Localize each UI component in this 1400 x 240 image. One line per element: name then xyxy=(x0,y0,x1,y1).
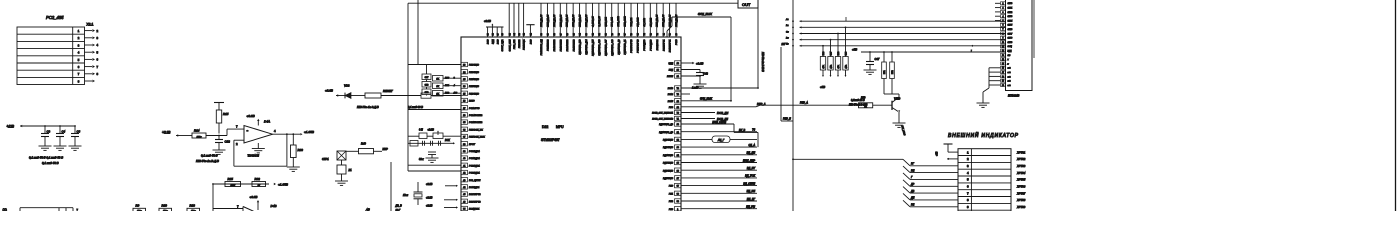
svg-text:BCK: BCK xyxy=(445,140,450,142)
svg-text:ВЫ2_АБ12: ВЫ2_АБ12 xyxy=(624,15,627,26)
svg-text:0,1 мкФ 30 B: 0,1 мкФ 30 B xyxy=(408,106,423,109)
svg-text:R13: R13 xyxy=(190,204,196,208)
svg-text:PA9/YАPT1: PA9/YАPT1 xyxy=(662,39,665,51)
svg-text:PA0_ЦKYП: PA0_ЦKYП xyxy=(469,179,481,182)
svg-text:BДД: BДД xyxy=(668,63,673,65)
svg-text:0,1 мкФ 50 B: 0,1 мкФ 50 B xyxy=(42,161,59,165)
svg-text:VT19: VT19 xyxy=(894,97,901,101)
svg-text:MPU: MPU xyxy=(556,125,564,129)
svg-text:ЖКИ_Д1_АБ: ЖКИ_Д1_АБ xyxy=(662,14,665,28)
svg-text:ДP: ДP xyxy=(910,183,915,186)
svg-text:PД13/ФМС_A18: PД13/ФМС_A18 xyxy=(611,39,614,56)
svg-text:ЮCB_OTГ_BП/PA12: ЮCB_OTГ_BП/PA12 xyxy=(652,118,674,121)
svg-text:STM32F407: STM32F407 xyxy=(541,138,560,142)
svg-text:XPT09: XPT09 xyxy=(1016,205,1026,209)
svg-text:PД5/ФМC: PД5/ФМC xyxy=(663,162,673,165)
svg-text:4: 4 xyxy=(1003,16,1004,18)
svg-text:+12B: +12B xyxy=(7,125,15,129)
svg-text:PД7/ФМC: PД7/ФМC xyxy=(663,177,673,180)
svg-text:BBT0: BBT0 xyxy=(469,101,475,103)
svg-text:СОСТ_СДA: СОСТ_СДA xyxy=(501,39,504,51)
svg-text:19: 19 xyxy=(1002,81,1004,83)
svg-text:+3.3B: +3.3B xyxy=(426,204,433,207)
svg-text:D4A: D4A xyxy=(264,120,270,124)
svg-text:ВОО_АБ1: ВОО_АБ1 xyxy=(611,17,614,26)
svg-text:+3.3B: +3.3B xyxy=(247,114,255,118)
svg-text:C4: C4 xyxy=(62,130,66,134)
svg-text:6: 6 xyxy=(1003,25,1004,27)
svg-text:+3.3B: +3.3B xyxy=(426,183,433,186)
svg-text:BД_CETИ: BД_CETИ xyxy=(743,182,755,185)
svg-text:C3: C3 xyxy=(47,130,51,134)
svg-text:VD2: VD2 xyxy=(344,84,350,88)
svg-text:+3.3B: +3.3B xyxy=(428,128,435,131)
svg-text:ЖКИ_Д1_АБ: ЖКИ_Д1_АБ xyxy=(546,14,549,28)
svg-text:ПД_HГ: ПД_HГ xyxy=(747,198,756,201)
svg-text:Z1: Z1 xyxy=(348,168,353,172)
svg-text:ЗУ_АБ12: ЗУ_АБ12 xyxy=(643,17,646,26)
svg-text:AЦ_Г: AЦ_Г xyxy=(717,139,725,142)
svg-text:PД14/ФМС_Д0: PД14/ФМС_Д0 xyxy=(617,39,620,55)
svg-text:XPT05: XPT05 xyxy=(1016,178,1026,182)
svg-text:PC0/AДC1: PC0/AДC1 xyxy=(469,150,480,153)
svg-text:R15: R15 xyxy=(223,112,229,116)
svg-text:+3.3B: +3.3B xyxy=(696,61,704,65)
svg-text:0,1 мкФ 50 B 0,1 мкФ 50 B: 0,1 мкФ 50 B 0,1 мкФ 50 B xyxy=(29,156,63,160)
svg-text:XPT08: XPT08 xyxy=(1016,198,1026,202)
svg-text:PС7/YСAPT6: PС7/YСAPT6 xyxy=(637,39,640,53)
svg-text:4,7к: 4,7к xyxy=(846,65,848,68)
svg-text:CEГ1: CEГ1 xyxy=(1008,8,1013,10)
svg-text:BCC: BCC xyxy=(497,39,499,44)
svg-text:PД1/ФМC_Д3: PД1/ФМC_Д3 xyxy=(659,131,674,134)
svg-text:R30: R30 xyxy=(298,148,304,152)
svg-text:A_КОЛ_АБ: A_КОЛ_АБ xyxy=(591,16,594,28)
svg-text:PH1/OCK_BЫX: PH1/OCK_BЫX xyxy=(469,137,485,139)
svg-text:D22: D22 xyxy=(542,125,548,129)
svg-text:XPT02: XPT02 xyxy=(1016,157,1026,161)
svg-text:XPT03: XPT03 xyxy=(1016,164,1026,168)
svg-text:BCC: BCC xyxy=(531,39,533,44)
svg-text:OUT: OUT xyxy=(742,2,751,7)
svg-text:R49: R49 xyxy=(361,142,366,146)
svg-text:PE3/ФМC: PE3/ФМC xyxy=(469,71,479,74)
svg-text:PA2/YАPT2: PA2/YАPT2 xyxy=(469,193,481,196)
svg-text:PC15/OCK32: PC15/OCK32 xyxy=(469,122,483,124)
svg-text:PC2/AДC1: PC2/AДC1 xyxy=(469,164,480,167)
svg-text:PA13: PA13 xyxy=(668,87,674,90)
svg-text:+3.3B: +3.3B xyxy=(426,197,433,200)
svg-text:PС6/YСAPT6: PС6/YСAPT6 xyxy=(630,39,633,53)
svg-text:ПД_BH: ПД_BH xyxy=(747,190,756,193)
svg-text:C6: C6 xyxy=(77,130,81,134)
svg-text:PC3/AДC1: PC3/AДC1 xyxy=(469,172,480,175)
svg-text:ПД_PM: ПД_PM xyxy=(746,206,756,209)
svg-text:28,Г: 28,Г xyxy=(395,209,401,211)
svg-text:ЖКИ_Д0_АБ: ЖКИ_Д0_АБ xyxy=(540,14,543,28)
svg-text:PA10/YАPT1: PA10/YАPT1 xyxy=(669,39,672,53)
svg-text:гнд: гнд xyxy=(1008,84,1011,87)
svg-text:HT1621B: HT1621B xyxy=(1008,94,1020,98)
svg-text:ЖКИ_Д2_АБ: ЖКИ_Д2_АБ xyxy=(553,14,556,28)
svg-text:ЖКИ_Д4_АБ: ЖКИ_Д4_АБ xyxy=(566,14,569,28)
svg-text:+3.3B: +3.3B xyxy=(250,195,258,199)
svg-text:BKAП: BKAП xyxy=(667,75,673,78)
svg-text:XPT06: XPT06 xyxy=(1016,185,1026,189)
svg-text:PД4/ФМC: PД4/ФМC xyxy=(663,154,673,157)
svg-text:ГHД: ГHД xyxy=(669,70,674,72)
svg-text:BДД: BДД xyxy=(1008,51,1013,53)
svg-text:PД15/ФМС_Д1: PД15/ФМС_Д1 xyxy=(624,39,627,55)
svg-text:PД8/ФМС_Д13: PД8/ФМС_Д13 xyxy=(579,39,582,55)
svg-text:ИЗМ_СЕТИ: ИЗМ_СЕТИ xyxy=(712,121,726,124)
svg-text:PИ: PИ xyxy=(911,169,915,172)
svg-text:PA4/ДАC1: PA4/ДАC1 xyxy=(469,208,480,211)
svg-text:ТОК_АБ1: ТОК_АБ1 xyxy=(630,18,633,27)
svg-text:ЮСВ_ДМ: ЮСВ_ДМ xyxy=(717,112,729,115)
svg-text:РИР_А: РИР_А xyxy=(757,102,766,106)
svg-text:PВ13/СПИ2: PВ13/СПИ2 xyxy=(560,39,562,52)
svg-text:K10-79в-1а 8-Д-B: K10-79в-1а 8-Д-B xyxy=(357,105,379,109)
svg-text:BД_ДH: BД_ДH xyxy=(747,152,756,155)
svg-text:PД2/ФМC: PД2/ФМC xyxy=(663,139,673,142)
svg-text:9: 9 xyxy=(1003,38,1004,40)
svg-text:R32: R32 xyxy=(255,177,261,181)
svg-text:BД_TOK: BД_TOK xyxy=(745,175,755,178)
svg-text:гнд: гнд xyxy=(1008,71,1011,74)
svg-text:PA3/YАPT2: PA3/YАPT2 xyxy=(469,200,481,203)
svg-text:20: 20 xyxy=(1002,85,1004,87)
svg-text:ЖКИ_Д5_АБ: ЖКИ_Д5_АБ xyxy=(572,14,575,28)
svg-text:R9: R9 xyxy=(136,204,140,208)
svg-text:R10: R10 xyxy=(162,204,168,208)
svg-text:PД9/ФМС_Д14: PД9/ФМС_Д14 xyxy=(585,39,588,55)
svg-text:PA15: PA15 xyxy=(668,100,674,103)
svg-text:ЖКИ_Д2_АБ: ЖКИ_Д2_АБ xyxy=(669,14,672,28)
svg-text:МВП_АБ1: МВП_АБ1 xyxy=(604,17,607,26)
svg-text:+3.3B: +3.3B xyxy=(484,19,491,23)
svg-text:PД6/ФМC: PД6/ФМC xyxy=(663,169,673,172)
svg-text:PС9/СДИO: PС9/СДИO xyxy=(650,39,652,50)
svg-text:ЮCB_OTГ_BM/PA11: ЮCB_OTГ_BM/PA11 xyxy=(652,112,674,115)
svg-text:PД0/ФМC_Д2: PД0/ФМC_Д2 xyxy=(659,123,674,126)
svg-text:XPT07: XPT07 xyxy=(1016,191,1026,195)
svg-text:АЛ_АБ12: АЛ_АБ12 xyxy=(649,17,652,28)
svg-text:2: 2 xyxy=(1003,8,1004,10)
svg-text:R70: R70 xyxy=(861,97,866,100)
svg-text:гнд: гнд xyxy=(1008,67,1011,70)
svg-text:РМ_АБ12: РМ_АБ12 xyxy=(636,17,639,27)
svg-text:РИР_А: РИР_А xyxy=(800,102,808,105)
svg-text:PB10/ТЦK: PB10/ТЦK xyxy=(524,39,526,50)
svg-text:3: 3 xyxy=(1003,12,1004,14)
svg-text:ДB_B: ДB_B xyxy=(395,205,403,208)
svg-text:XPT01: XPT01 xyxy=(1016,150,1026,154)
svg-text:C47: C47 xyxy=(875,57,880,61)
svg-text:D4B: D4B xyxy=(271,204,277,208)
svg-text:17: 17 xyxy=(1002,72,1004,74)
svg-text:гнд: гнд xyxy=(1008,75,1011,78)
svg-text:PВ10/И2С2_СД: PВ10/И2С2_СД xyxy=(541,39,543,55)
svg-text:RESET: RESET xyxy=(383,89,393,93)
svg-text:1: 1 xyxy=(1003,3,1004,5)
svg-text:4,7к: 4,7к xyxy=(831,65,833,68)
svg-text:PHА_ВТ1: PHА_ВТ1 xyxy=(513,39,516,49)
svg-text:R14: R14 xyxy=(194,129,200,133)
svg-text:ЗУМ_ВЫХ: ЗУМ_ВЫХ xyxy=(698,12,713,16)
svg-text:ДH: ДH xyxy=(910,197,915,200)
svg-text:РИР_Б: РИР_Б xyxy=(783,118,791,121)
svg-text:PВ12/СПИ2: PВ12/СПИ2 xyxy=(554,39,556,52)
svg-text:ЖКИ_Д7_АБ: ЖКИ_Д7_АБ xyxy=(585,14,588,28)
svg-text:ЖКИ_Д3_АБ: ЖКИ_Д3_АБ xyxy=(675,14,678,28)
svg-text:PA8/МСO1: PA8/МСO1 xyxy=(656,39,659,51)
svg-text:ЖКИ_Д3_АБ: ЖКИ_Д3_АБ xyxy=(559,14,562,28)
svg-text:PH0/OCK_BX: PH0/OCK_BX xyxy=(469,129,483,131)
svg-text:10: 10 xyxy=(1002,42,1004,44)
svg-text:PД11/ФМС_A16: PД11/ФМС_A16 xyxy=(598,39,601,56)
svg-text:+3.3B: +3.3B xyxy=(162,131,171,135)
svg-text:0,1 мкФ 50 B: 0,1 мкФ 50 B xyxy=(201,154,218,158)
svg-text:BДД: BДД xyxy=(493,39,495,44)
svg-text:ЗУМ_ВЫХ: ЗУМ_ВЫХ xyxy=(700,97,712,100)
svg-text:PB2/ВТ1: PB2/ВТ1 xyxy=(519,39,521,48)
svg-text:18: 18 xyxy=(1002,76,1004,78)
svg-text:PВ14/СПИ2: PВ14/СПИ2 xyxy=(566,39,569,52)
svg-text:16: 16 xyxy=(1002,68,1004,70)
svg-text:AB: AB xyxy=(365,208,370,212)
svg-text:+3.3B: +3.3B xyxy=(325,89,333,93)
svg-text:ВНЕШНИЙ ИНДИКАТОР: ВНЕШНИЙ ИНДИКАТОР xyxy=(948,131,1019,139)
svg-text:PД12/ФМС_A17: PД12/ФМС_A17 xyxy=(604,39,607,56)
svg-text:11: 11 xyxy=(1002,46,1004,48)
svg-text:12 м: 12 м xyxy=(403,194,408,197)
svg-text:x: x xyxy=(1007,63,1009,65)
svg-text:PA14: PA14 xyxy=(668,93,674,96)
svg-text:МВР: МВР xyxy=(383,148,389,151)
svg-text:гнд: гнд xyxy=(1008,80,1011,83)
svg-text:+1.65B: +1.65B xyxy=(304,130,314,134)
svg-text:HPCT: HPCT xyxy=(469,144,476,146)
svg-text:PВ11/И2С2: PВ11/И2С2 xyxy=(548,39,550,51)
svg-text:14: 14 xyxy=(1002,59,1004,61)
svg-text:СБР1: СБР1 xyxy=(322,157,329,161)
svg-text:ЖКИ_Д0_АБ: ЖКИ_Д0_АБ xyxy=(656,14,659,28)
svg-text:BCC: BCC xyxy=(488,39,490,44)
svg-text:CEГ4: CEГ4 xyxy=(1008,19,1013,22)
svg-text:PE4/ФМC: PE4/ФМC xyxy=(469,78,479,81)
svg-text:СД_A: СД_A xyxy=(748,144,755,147)
svg-text:ВЫ1_АБ12: ВЫ1_АБ12 xyxy=(617,15,620,26)
svg-text:(X): (X) xyxy=(3,208,7,211)
svg-text:K10-79в-1а B-Д-B: K10-79в-1а B-Д-B xyxy=(196,159,219,163)
svg-text:C12: C12 xyxy=(225,140,231,144)
svg-text:5: 5 xyxy=(1003,20,1004,22)
svg-text:0 П: 0 П xyxy=(419,128,423,131)
svg-text:PA1/AДC1: PA1/AДC1 xyxy=(469,186,480,189)
svg-text:+5B: +5B xyxy=(820,85,825,89)
svg-text:OСЦ: OСЦ xyxy=(1008,46,1013,48)
svg-text:+5B: +5B xyxy=(936,151,939,156)
svg-text:+5B: +5B xyxy=(852,48,857,52)
svg-text:X2.1: X2.1 xyxy=(87,23,94,27)
svg-text:XPT04: XPT04 xyxy=(1016,171,1026,175)
svg-text:C42: C42 xyxy=(703,72,708,76)
svg-text:PВ15/СПИ2: PВ15/СПИ2 xyxy=(573,39,575,52)
svg-text:ЖКИ_Д6_АБ: ЖКИ_Д6_АБ xyxy=(579,14,582,28)
svg-text:BД_BY: BД_BY xyxy=(747,167,755,170)
svg-text:PС10: PС10 xyxy=(676,39,678,45)
svg-text:ИЗМ_ЛИP: ИЗМ_ЛИP xyxy=(743,159,755,162)
svg-text:СОСТ_СKЛ: СОСТ_СKЛ xyxy=(509,39,511,51)
svg-text:PE6/ФМC: PE6/ФМC xyxy=(469,92,479,95)
svg-text:PC1/AДC1: PC1/AДC1 xyxy=(469,157,480,160)
svg-text:x: x xyxy=(1007,59,1009,61)
svg-text:B_КОЛ_АБ: B_КОЛ_АБ xyxy=(598,16,601,27)
svg-text:PД3/ФМC: PД3/ФМC xyxy=(663,146,673,149)
svg-text:PC2_485: PC2_485 xyxy=(46,15,64,20)
svg-text:4,7к: 4,7к xyxy=(838,65,840,68)
svg-text:13: 13 xyxy=(1002,55,1004,57)
svg-text:7: 7 xyxy=(1003,29,1004,31)
svg-text:R25: R25 xyxy=(228,177,234,181)
svg-text:PС8/СДИO: PС8/СДИO xyxy=(644,39,646,50)
svg-text:PE: PE xyxy=(911,204,915,207)
svg-text:K10-79в-2а Б-16-B: K10-79в-2а Б-16-B xyxy=(761,52,763,72)
svg-text:TL062ACN: TL062ACN xyxy=(248,155,260,158)
svg-text:ДB: ДB xyxy=(910,190,915,193)
svg-text:PE5/ФМC: PE5/ФМC xyxy=(469,85,479,88)
svg-text:12: 12 xyxy=(1002,51,1004,53)
svg-text:4,7к: 4,7к xyxy=(823,65,825,68)
svg-text:PC13/PTC: PC13/PTC xyxy=(469,108,480,110)
svg-text:∞: ∞ xyxy=(247,130,249,133)
svg-text:PC14/OCK32: PC14/OCK32 xyxy=(469,114,483,117)
svg-text:PE2/ФМC: PE2/ФМC xyxy=(469,64,479,67)
svg-text:200к: 200к xyxy=(196,136,203,138)
svg-text:PД10/ФМС_Д15: PД10/ФМС_Д15 xyxy=(592,39,595,56)
svg-text:+1.65B: +1.65B xyxy=(278,182,288,186)
svg-text:8: 8 xyxy=(1003,33,1004,35)
svg-text:15: 15 xyxy=(1002,63,1004,65)
